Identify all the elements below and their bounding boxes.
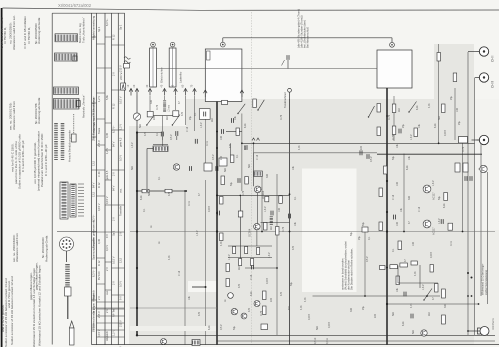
svg-text:2k2: 2k2 bbox=[398, 107, 401, 112]
component box 448 bbox=[448, 223, 453, 230]
svg-text:64 V: 64 V bbox=[112, 141, 116, 147]
resistor grid r1a bbox=[233, 247, 236, 254]
wire h 191 bbox=[137, 190, 186, 192]
wire v out 481 bbox=[480, 143, 482, 296]
svg-text:0,047: 0,047 bbox=[266, 277, 269, 284]
driver box bottom 1 bbox=[455, 163, 460, 172]
resistor R85 bbox=[444, 193, 448, 201]
wire v right 462 bbox=[462, 143, 464, 232]
fold crease line bbox=[251, 12, 253, 345]
svg-text:2k2: 2k2 bbox=[270, 225, 273, 230]
wire v mid 205 bbox=[205, 119, 207, 163]
tuning meter M1 bbox=[133, 113, 140, 120]
wire h 222 bbox=[261, 221, 290, 223]
svg-text:stellter Netzspannung: stellter Netzspannung bbox=[484, 269, 488, 295]
svg-text:4,7k: 4,7k bbox=[410, 303, 413, 308]
wire h 195 bbox=[217, 194, 290, 196]
svg-text:Tonabnehmer: Tonabnehmer bbox=[283, 92, 287, 108]
Tr1 terminal bbox=[220, 42, 225, 47]
capacitor C90 bbox=[403, 292, 405, 297]
wire v 240 bbox=[240, 194, 260, 196]
svg-text:R 79: R 79 bbox=[388, 114, 391, 120]
svg-text:0,5 V: 0,5 V bbox=[170, 134, 173, 140]
wire h 115 switch link bbox=[154, 115, 173, 117]
svg-text:64 V: 64 V bbox=[91, 182, 95, 188]
svg-text:2 V: 2 V bbox=[118, 232, 122, 236]
wire v tuner 194 bbox=[194, 96, 196, 131]
junction 468-273 bbox=[467, 272, 469, 274]
wire v tuner 185 bbox=[185, 96, 187, 125]
wire v mid 242 bbox=[241, 114, 243, 192]
svg-text:1,8 V: 1,8 V bbox=[228, 254, 231, 260]
bus A (left, heavy) bbox=[136, 133, 138, 336]
svg-text:R 12: R 12 bbox=[112, 34, 116, 40]
resistor R21 bbox=[142, 189, 149, 193]
svg-text:0,3 V: 0,3 V bbox=[118, 281, 122, 287]
wire T2 feed bbox=[253, 153, 255, 186]
resistor R98 bbox=[430, 265, 433, 273]
svg-text:Abgleichanweisung: Abgleichanweisung bbox=[91, 15, 95, 40]
switch S4 arm bbox=[258, 100, 264, 110]
svg-text:1,2 V: 1,2 V bbox=[112, 330, 116, 336]
junction bus A 132 bbox=[136, 131, 138, 133]
resistor R82 bbox=[398, 241, 402, 250]
svg-text:Gleichrichter: Gleichrichter bbox=[160, 67, 164, 83]
switch S3 arm bbox=[238, 104, 245, 114]
junction 242-143 bbox=[241, 142, 243, 144]
rectifier C66 terminal bbox=[151, 42, 156, 47]
capacitor C87 bbox=[440, 219, 442, 224]
svg-text:0,15 V: 0,15 V bbox=[97, 329, 101, 337]
resistor R63 bbox=[263, 306, 267, 315]
svg-text:von 0,045 µF/400 V geschützt.: von 0,045 µF/400 V geschützt. bbox=[33, 142, 37, 184]
bandfilter box2 bbox=[219, 158, 227, 166]
wire v tuner 150 bbox=[149, 96, 151, 111]
svg-text:2k2: 2k2 bbox=[238, 265, 241, 270]
bus A upper thin bbox=[136, 96, 138, 133]
svg-text:1,8 V: 1,8 V bbox=[432, 180, 435, 186]
svg-text:5k6: 5k6 bbox=[412, 329, 415, 334]
illustration filter strip 4 bbox=[54, 99, 80, 110]
DIN jack Bu1 bbox=[479, 47, 488, 56]
capacitor C18 bbox=[215, 166, 217, 171]
svg-text:0,15 V: 0,15 V bbox=[105, 196, 109, 204]
svg-text:220: 220 bbox=[270, 297, 273, 302]
svg-text:64 V: 64 V bbox=[112, 185, 116, 191]
wire v 420 bbox=[419, 265, 421, 288]
svg-text:470: 470 bbox=[181, 111, 184, 116]
junction 404-231 bbox=[403, 231, 405, 233]
junction 427-296 bbox=[426, 295, 428, 297]
svg-text:no. 200002500:: no. 200002500: bbox=[9, 22, 13, 44]
svg-text:R 79: R 79 bbox=[242, 190, 245, 196]
wire h 283 bbox=[398, 282, 438, 284]
svg-text:1,8 V: 1,8 V bbox=[131, 142, 134, 148]
svg-text:2k2: 2k2 bbox=[166, 115, 169, 120]
svg-text:2 V: 2 V bbox=[112, 217, 116, 221]
junction 365-296 bbox=[364, 295, 366, 297]
terminal post 5 bbox=[174, 89, 178, 92]
svg-text:8,2k: 8,2k bbox=[443, 203, 446, 208]
svg-text:330: 330 bbox=[350, 307, 353, 312]
junction 468-331 bbox=[467, 330, 469, 332]
svg-text:100: 100 bbox=[456, 107, 459, 112]
illustration pencil body bbox=[70, 328, 75, 345]
svg-text:osz.: osz. bbox=[106, 290, 109, 295]
wire Tr1 terminal up bbox=[222, 38, 224, 42]
capacitor C80 bbox=[464, 176, 466, 181]
svg-text:C 18: C 18 bbox=[418, 206, 421, 212]
resistor grid r1b bbox=[245, 247, 248, 254]
wire h 335 bbox=[137, 334, 495, 336]
svg-text:220: 220 bbox=[153, 115, 156, 120]
svg-text:R 757/40 Ω,: R 757/40 Ω, bbox=[27, 27, 31, 44]
svg-text:gegen Masse legen.: gegen Masse legen. bbox=[29, 272, 33, 300]
svg-text:0,047: 0,047 bbox=[430, 251, 433, 258]
speaker LS1 bbox=[480, 327, 489, 336]
illustration dial strip A bbox=[54, 123, 58, 160]
svg-text:2 V: 2 V bbox=[112, 281, 116, 285]
svg-text:100: 100 bbox=[396, 181, 399, 186]
DIN jack Bu2 bbox=[479, 73, 488, 82]
resistor R96 bbox=[442, 315, 446, 324]
svg-text:2k2: 2k2 bbox=[211, 117, 214, 122]
shaded area top-right bbox=[434, 44, 474, 99]
transistor T7 bbox=[161, 339, 167, 345]
svg-text:215 V: 215 V bbox=[118, 320, 122, 327]
svg-text:470: 470 bbox=[292, 245, 295, 250]
resistor R90 bbox=[380, 266, 386, 270]
wire h 268 stub bbox=[245, 267, 277, 269]
svg-text:Taste: Taste bbox=[97, 127, 101, 134]
svg-text:panel ist to the A. C. side of: panel ist to the A. C. side of the bbox=[14, 141, 18, 184]
resistor R91 bbox=[390, 265, 398, 269]
svg-text:Solder a capacitor of 0,015 µF: Solder a capacitor of 0,015 µF/600 volts bbox=[17, 134, 21, 189]
terminal post 3 bbox=[148, 89, 152, 92]
resistor R30 bbox=[276, 227, 280, 236]
capacitor C19 bbox=[231, 118, 233, 123]
shaded area left-low bbox=[129, 126, 186, 345]
capacitor C12 on bus bbox=[221, 129, 223, 134]
svg-text:5,6k: 5,6k bbox=[105, 94, 109, 100]
junction 387-116 bbox=[386, 115, 388, 117]
wire v mid 205b bbox=[205, 180, 207, 345]
svg-text:C 18: C 18 bbox=[256, 154, 259, 160]
svg-text:0,3 V: 0,3 V bbox=[118, 155, 122, 161]
svg-text:Sp 1: Sp 1 bbox=[97, 26, 101, 32]
svg-text:8,2k: 8,2k bbox=[402, 321, 405, 326]
svg-text:470: 470 bbox=[229, 143, 232, 148]
resistor R95 bbox=[442, 289, 446, 298]
cap C13 bbox=[175, 131, 177, 136]
svg-text:100: 100 bbox=[278, 207, 281, 212]
junction 387-181 bbox=[386, 180, 388, 182]
svg-text:R 12: R 12 bbox=[97, 182, 101, 188]
wire v tuner 164 bbox=[164, 96, 166, 100]
coil L8 hatch bbox=[192, 340, 200, 346]
svg-text:0,5 V: 0,5 V bbox=[212, 154, 215, 160]
resistor R11 bbox=[236, 128, 239, 136]
svg-text:gem 4,5: gem 4,5 bbox=[118, 137, 122, 147]
svg-text:25µ: 25µ bbox=[450, 95, 453, 100]
bus B (chassis, heavy) bbox=[216, 102, 218, 345]
junction 462-231 bbox=[462, 231, 464, 233]
potentiometer P1 arm bbox=[424, 289, 432, 301]
wire v out 487 bbox=[487, 172, 489, 304]
transistor T10 arm bbox=[409, 102, 417, 113]
module box with cap bbox=[199, 109, 210, 120]
junction 186-191 bbox=[185, 190, 187, 192]
switch S1 frame bbox=[147, 111, 153, 117]
white note block centre bbox=[302, 169, 357, 293]
electrolytic C67 body bbox=[169, 48, 176, 87]
svg-text:25µ: 25µ bbox=[358, 235, 361, 240]
svg-text:Nr. 200001705:: Nr. 200001705: bbox=[34, 103, 38, 124]
wire v 240b bbox=[239, 195, 241, 259]
svg-text:R 79: R 79 bbox=[260, 310, 263, 316]
svg-text:C 1 and C 2/30—90 pF: C 1 and C 2/30—90 pF bbox=[21, 140, 25, 172]
svg-text:2k2: 2k2 bbox=[428, 311, 431, 316]
junction 387-232 bbox=[386, 230, 388, 232]
svg-text:8,2k: 8,2k bbox=[140, 195, 143, 200]
svg-text:2 V: 2 V bbox=[112, 72, 116, 76]
svg-text:CH II: CH II bbox=[491, 81, 495, 88]
svg-text:R 79: R 79 bbox=[392, 134, 395, 140]
resistor R71 bbox=[377, 127, 381, 136]
svg-text:5k6: 5k6 bbox=[248, 163, 251, 168]
illustration dropper wire bbox=[73, 114, 75, 134]
svg-text:9 V: 9 V bbox=[118, 296, 122, 300]
svg-text:220: 220 bbox=[244, 145, 247, 150]
wire h 132 junction row bbox=[137, 132, 162, 134]
alignment table row separators bbox=[92, 37, 125, 337]
svg-text:8,2k: 8,2k bbox=[250, 291, 253, 296]
svg-text:R 79: R 79 bbox=[282, 226, 285, 232]
svg-text:220 V~: 220 V~ bbox=[119, 71, 123, 80]
wire h 153 light bbox=[254, 152, 378, 154]
wire h 143 long bbox=[242, 142, 475, 144]
svg-text:Mains trans. leg: Mains trans. leg bbox=[78, 23, 82, 43]
svg-text:(zweimal eingezeichnet) einen: (zweimal eingezeichnet) einen Kondensato… bbox=[36, 131, 40, 191]
svg-text:1,2 V: 1,2 V bbox=[105, 148, 109, 154]
svg-text:8,2k: 8,2k bbox=[434, 123, 437, 128]
svg-text:470: 470 bbox=[168, 191, 171, 196]
svg-text:12,5: 12,5 bbox=[91, 191, 95, 197]
mains plug box bbox=[124, 64, 130, 69]
svg-text:2 V: 2 V bbox=[105, 267, 109, 271]
relay box bbox=[459, 137, 468, 144]
illustration filter strip 3 bbox=[54, 87, 79, 95]
switch S2 frame bbox=[173, 111, 179, 117]
svg-text:50µ: 50µ bbox=[392, 155, 395, 160]
mains transformer Tr1 body bbox=[205, 49, 242, 102]
svg-text:5k6: 5k6 bbox=[131, 165, 134, 170]
DIN jack Bu3 bbox=[479, 135, 488, 144]
capacitor C17 bbox=[189, 166, 191, 171]
junction 137-191 bbox=[136, 190, 138, 192]
jack stub 1 bbox=[468, 51, 477, 53]
shaded area right-bottom bbox=[474, 230, 499, 345]
svg-text:8,2k: 8,2k bbox=[406, 165, 409, 170]
bandfilter box bbox=[204, 163, 212, 171]
svg-text:470: 470 bbox=[280, 291, 283, 296]
resistor R31 bbox=[279, 196, 283, 204]
svg-text:4,7k: 4,7k bbox=[414, 271, 417, 276]
svg-text:C 44: C 44 bbox=[97, 171, 101, 177]
resistor R22 bbox=[165, 189, 172, 193]
svg-text:and R 82 to ground.: and R 82 to ground. bbox=[1, 305, 5, 332]
svg-text:5k6: 5k6 bbox=[139, 123, 142, 128]
svg-text:215 V: 215 V bbox=[97, 140, 101, 147]
svg-text:1,8 V: 1,8 V bbox=[410, 134, 413, 140]
capacitor C70 bbox=[286, 55, 288, 60]
junction 289-231 bbox=[289, 231, 291, 233]
illustration strip4 pin bbox=[76, 101, 80, 107]
junction 217-148 bbox=[216, 147, 218, 149]
resistor R28 bbox=[265, 196, 269, 202]
resistor R24 bbox=[220, 197, 224, 205]
resistor R72 bbox=[384, 166, 388, 174]
bus C (signal) bbox=[289, 99, 291, 345]
terminals above 143 wire bbox=[252, 138, 260, 141]
wire h 154 heavy bbox=[377, 153, 482, 155]
resistor R73 v394 bbox=[392, 104, 396, 113]
illustration plug body bbox=[65, 287, 72, 296]
svg-text:Röhrenvoltmeter gegen Masse: Röhrenvoltmeter gegen Masse bbox=[91, 294, 95, 330]
resistor R78 bbox=[414, 128, 418, 137]
wire v out 474 bbox=[474, 78, 476, 336]
table sep 308 bbox=[92, 307, 125, 309]
resistor R25 bbox=[220, 233, 224, 241]
svg-text:1,2 V: 1,2 V bbox=[118, 124, 122, 130]
wire v amp 253 bbox=[253, 144, 255, 153]
svg-text:C 18: C 18 bbox=[392, 194, 395, 200]
illustration strip2 pin bbox=[73, 56, 77, 61]
svg-text:0,047: 0,047 bbox=[308, 313, 311, 320]
svg-text:1,8 V: 1,8 V bbox=[200, 122, 203, 128]
shaded area main bbox=[186, 99, 474, 345]
svg-text:R 79: R 79 bbox=[156, 104, 159, 110]
transistor T2 bbox=[254, 186, 261, 193]
white column right bbox=[474, 99, 499, 230]
wire mid link 68 bbox=[157, 68, 377, 70]
svg-text:50µ: 50µ bbox=[290, 281, 293, 286]
svg-text:330: 330 bbox=[150, 99, 153, 104]
svg-text:8,2k: 8,2k bbox=[244, 123, 247, 128]
svg-text:4,7k: 4,7k bbox=[428, 103, 431, 108]
wire stub in notch bbox=[192, 286, 206, 288]
svg-text:0,15 V: 0,15 V bbox=[118, 96, 122, 104]
junction 387-212 bbox=[386, 211, 388, 213]
resistor R8 under term9 bbox=[253, 99, 256, 108]
svg-text:Sp 1: Sp 1 bbox=[112, 230, 116, 236]
page top rule bbox=[3, 8, 499, 10]
wire T2-T3 link bbox=[257, 193, 259, 224]
junction 231-262 bbox=[261, 231, 263, 233]
svg-text:12,5: 12,5 bbox=[91, 160, 95, 166]
rectifier column C66 body bbox=[150, 48, 157, 87]
light band bottom-left bbox=[130, 326, 216, 331]
terminal post 4 bbox=[163, 89, 167, 92]
svg-text:12,5: 12,5 bbox=[118, 257, 122, 263]
svg-text:Abgleich: Abgleich bbox=[105, 330, 109, 341]
svg-text:470: 470 bbox=[198, 311, 201, 316]
svg-text:50µ: 50µ bbox=[230, 181, 233, 186]
resistor R81 bbox=[379, 222, 383, 231]
svg-text:Ladeelko: Ladeelko bbox=[179, 71, 183, 83]
component box 365 bbox=[362, 227, 368, 232]
junction 137-308 bbox=[136, 307, 138, 309]
capacitor C22 bbox=[237, 178, 239, 183]
capacitor C25 bbox=[270, 211, 272, 216]
transistor T9 bbox=[241, 313, 247, 319]
svg-text:8,2k: 8,2k bbox=[416, 105, 419, 110]
jack stub 3 bbox=[472, 139, 480, 141]
switch S5 arm bbox=[369, 106, 375, 117]
illustration dropper box bbox=[72, 134, 77, 142]
wire h 341 bbox=[217, 340, 495, 342]
svg-text:C 67 und C 68 entfallen: C 67 und C 68 entfallen bbox=[23, 16, 27, 49]
capacitor C21 bbox=[288, 214, 290, 219]
svg-text:1,8 V: 1,8 V bbox=[264, 206, 267, 212]
wire Tr2 terminal up bbox=[391, 38, 393, 43]
capacitor C72 bbox=[398, 129, 400, 134]
resistor R92 bbox=[400, 263, 408, 267]
svg-text:25µ: 25µ bbox=[362, 305, 365, 310]
svg-text:4 Ω Perm: 4 Ω Perm bbox=[491, 317, 495, 330]
svg-text:1,2 V: 1,2 V bbox=[97, 96, 101, 102]
svg-text:2 V: 2 V bbox=[112, 172, 116, 176]
svg-text:0,047: 0,047 bbox=[208, 205, 211, 212]
bus D (supply, heavy) bbox=[386, 88, 388, 345]
speaker stub bbox=[468, 330, 480, 332]
junction 137-232 bbox=[136, 230, 138, 232]
svg-text:100: 100 bbox=[412, 241, 415, 246]
svg-text:0,5 V: 0,5 V bbox=[366, 256, 369, 262]
transistor T3 bbox=[254, 223, 260, 229]
resistor R62 bbox=[263, 291, 267, 300]
svg-text:5k6: 5k6 bbox=[224, 167, 227, 172]
svg-text:osz.: osz. bbox=[119, 188, 122, 193]
resistor R29 bbox=[264, 223, 268, 231]
svg-text:220: 220 bbox=[220, 155, 223, 160]
illustration connector lead bbox=[57, 231, 97, 233]
svg-text:6,3 V~: 6,3 V~ bbox=[105, 18, 109, 26]
wire v right 438 bbox=[438, 44, 440, 143]
Tr1 inner label box bbox=[207, 51, 211, 60]
svg-text:9 V: 9 V bbox=[105, 234, 109, 238]
illustration dial strip B bbox=[61, 123, 65, 160]
wire v out 404 bbox=[403, 154, 405, 232]
svg-text:R 41: R 41 bbox=[450, 240, 453, 246]
svg-text:Spannungsangaben gemessen mit: Spannungsangaben gemessen mit bbox=[91, 220, 95, 260]
svg-text:4,7k: 4,7k bbox=[300, 305, 303, 310]
svg-text:0,3 A: 0,3 A bbox=[325, 338, 329, 344]
svg-text:Ansicht Bestückungsseite: Ansicht Bestückungsseite bbox=[68, 130, 72, 162]
svg-text:C 18: C 18 bbox=[250, 274, 253, 280]
junction 468-296 bbox=[467, 295, 469, 297]
film edge bar bbox=[1, 8, 3, 347]
capacitor C81 bbox=[469, 176, 471, 181]
wire v out 394 bbox=[393, 96, 395, 141]
svg-text:4,7k: 4,7k bbox=[168, 255, 171, 260]
svg-text:Tastenaggregat von der Bestück: Tastenaggregat von der Bestückungs- bbox=[91, 96, 95, 140]
svg-text:0,45: 0,45 bbox=[105, 132, 109, 138]
svg-text:Änderung ab Gerät: Änderung ab Gerät bbox=[44, 236, 48, 262]
margin divider rule bbox=[51, 13, 53, 344]
transistor T12 bbox=[423, 220, 431, 228]
junction 253-143 bbox=[253, 142, 255, 144]
